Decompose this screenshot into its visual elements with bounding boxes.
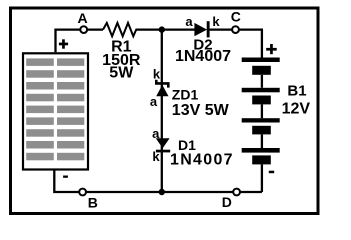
resistor R1 zigzag <box>103 23 136 36</box>
svg-text:A: A <box>77 10 87 26</box>
battery + terminal label <box>266 44 277 54</box>
svg-text:13V 5W: 13V 5W <box>172 102 230 119</box>
battery B1 plates <box>242 58 280 165</box>
junction dot bottom <box>159 189 165 195</box>
diode D2 symbol <box>194 21 209 37</box>
bottom wire <box>54 170 262 193</box>
node A <box>80 26 87 33</box>
solar panel cells <box>26 58 84 160</box>
svg-text:k: k <box>212 14 220 29</box>
junction dot top <box>159 26 165 32</box>
panel - terminal label <box>63 176 68 178</box>
svg-text:1N4007: 1N4007 <box>175 48 231 65</box>
node D <box>233 189 240 196</box>
diode D1 symbol <box>156 138 170 148</box>
zener ZD1 symbol <box>156 80 168 88</box>
svg-text:k: k <box>153 67 161 82</box>
panel + terminal label <box>59 39 68 48</box>
svg-text:a: a <box>152 126 160 141</box>
svg-text:B1: B1 <box>287 83 306 100</box>
svg-text:k: k <box>152 149 160 164</box>
wire: resistor to D2 <box>136 28 195 30</box>
svg-text:5W: 5W <box>109 65 134 82</box>
svg-text:a: a <box>185 14 193 29</box>
solar panel outline <box>23 53 88 169</box>
svg-text:D: D <box>222 194 232 210</box>
wire: D2 to corner, down to battery <box>210 30 262 58</box>
svg-text:ZD1: ZD1 <box>172 87 199 103</box>
wire: panel top to node A to resistor <box>56 30 104 53</box>
node B <box>79 189 86 196</box>
border frame <box>11 8 319 214</box>
svg-text:B: B <box>88 195 98 211</box>
battery inter-cell wires <box>261 75 263 192</box>
svg-text:1N4007: 1N4007 <box>170 152 234 169</box>
node C <box>232 26 239 33</box>
svg-text:a: a <box>150 94 158 109</box>
middle branch wire <box>161 30 163 192</box>
battery - terminal label <box>269 171 274 174</box>
svg-text:12V: 12V <box>282 101 311 118</box>
svg-text:C: C <box>231 8 241 24</box>
